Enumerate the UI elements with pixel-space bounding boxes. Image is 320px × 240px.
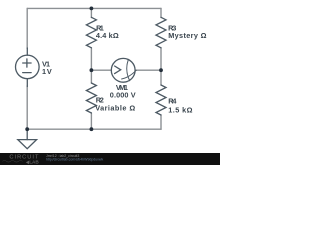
svg-text:LAB: LAB [29,159,39,164]
svg-text:0.000 V: 0.000 V [110,91,136,100]
svg-text:htlp:∕∕circuitlab.corn∕c∕b4hW9: htlp:∕∕circuitlab.corn∕c∕b4hW9dpduxwk [46,158,103,162]
svg-text:Variable Ω: Variable Ω [95,104,135,113]
svg-text:1.5 kΩ: 1.5 kΩ [168,105,192,114]
svg-text:1 V: 1 V [42,67,52,76]
svg-text:4.4 kΩ: 4.4 kΩ [96,31,119,40]
svg-text:R4: R4 [168,97,177,106]
svg-text:Mystery Ω: Mystery Ω [168,31,206,40]
